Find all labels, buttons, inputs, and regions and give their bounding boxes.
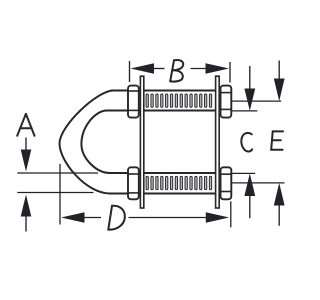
wire top rod upper edge <box>111 90 231 92</box>
plate right <box>216 76 220 208</box>
label D <box>108 206 125 230</box>
label C <box>241 133 252 152</box>
plate left <box>140 76 143 208</box>
label E <box>271 131 283 149</box>
nut bottom-right <box>221 167 232 199</box>
nut top-left <box>128 86 139 118</box>
dimension B <box>130 61 231 83</box>
nut top-right <box>221 86 232 118</box>
dimension D <box>60 164 231 227</box>
label B <box>170 60 183 82</box>
wire bottom rod upper edge <box>109 172 231 174</box>
nut bottom-left <box>128 167 139 199</box>
label A <box>17 114 34 136</box>
wire bottom rod lower edge <box>109 193 231 195</box>
dimension C <box>232 66 258 218</box>
dimension E <box>232 61 285 226</box>
dimension A <box>17 138 98 232</box>
wire top rod lower edge <box>106 110 231 112</box>
threads top rod <box>145 92 215 110</box>
U-bolt bend outer arc <box>60 91 114 194</box>
U-bolt bend inner arc <box>81 111 110 174</box>
threads bottom rod <box>145 174 215 192</box>
